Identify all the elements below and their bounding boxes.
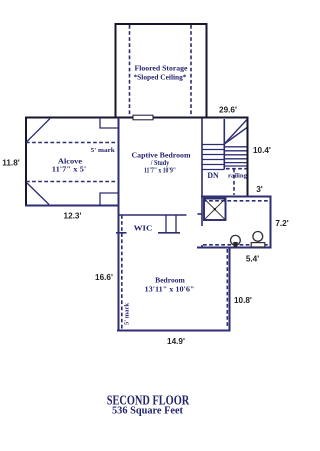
stair treads right flight xyxy=(224,147,247,166)
toilet xyxy=(231,235,241,247)
svg-text:12.3': 12.3' xyxy=(64,212,82,221)
WIC bottom wall left segment xyxy=(116,232,127,234)
svg-text:WIC: WIC xyxy=(134,224,153,232)
svg-text:5' mark: 5' mark xyxy=(91,147,116,154)
right exterior wall xyxy=(247,117,249,196)
svg-text:DN: DN xyxy=(207,171,219,180)
bedroom 5ft dashed line (left) xyxy=(121,215,123,330)
svg-text:16.6': 16.6' xyxy=(95,273,113,282)
alcove slope diagonal top-left xyxy=(27,119,50,142)
svg-text:11.8': 11.8' xyxy=(2,159,19,168)
svg-text:536 Square Feet: 536 Square Feet xyxy=(112,404,183,416)
svg-text:railing: railing xyxy=(228,172,248,179)
svg-text:10.8': 10.8' xyxy=(234,296,252,305)
svg-text:Bedroom: Bedroom xyxy=(155,278,185,285)
storage sloped-ceiling dashed line left xyxy=(129,25,131,117)
WIC top wall xyxy=(119,214,187,216)
svg-text:11'7" x 10'9": 11'7" x 10'9" xyxy=(144,168,176,175)
bathroom sloped dashed top xyxy=(203,200,268,202)
svg-text:14.9': 14.9' xyxy=(167,337,185,346)
captive bedroom label xyxy=(132,153,191,175)
svg-text:5' mark: 5' mark xyxy=(124,302,131,325)
bathroom left wall door cap xyxy=(201,245,203,248)
WIC door jamb right xyxy=(175,215,177,233)
svg-text:29.6': 29.6' xyxy=(219,106,237,115)
storage room walls xyxy=(116,24,207,118)
svg-text:5.4': 5.4' xyxy=(246,255,259,264)
stair treads left flight xyxy=(202,145,224,170)
bathroom bottom wall xyxy=(197,247,272,249)
railing dashed vertical xyxy=(233,169,235,195)
sink xyxy=(251,232,265,248)
bedroom right wall xyxy=(229,247,231,332)
stair winder diagonal to corner xyxy=(224,120,247,145)
svg-text:/ Study: / Study xyxy=(150,160,170,167)
alcove 5ft dashed line lower xyxy=(26,181,118,183)
storage sloped-ceiling dashed line right xyxy=(190,25,192,117)
svg-text:11'7" x 5': 11'7" x 5' xyxy=(52,167,86,174)
shower xyxy=(204,199,226,221)
wall stub left of bathroom xyxy=(198,213,203,215)
bathroom sloped dashed bottom xyxy=(203,244,268,246)
svg-text:Captive Bedroom: Captive Bedroom xyxy=(132,153,191,160)
WIC bottom wall right segment xyxy=(158,232,180,234)
stair winder diagonal to right wall xyxy=(224,128,247,145)
bedroom 5ft dashed line (right) xyxy=(226,249,228,327)
bathroom top wall xyxy=(201,196,272,198)
bathroom right wall xyxy=(270,196,272,249)
svg-text:7.2': 7.2' xyxy=(275,219,288,228)
svg-text:Floored Storage: Floored Storage xyxy=(135,65,188,72)
svg-text:3': 3' xyxy=(256,185,263,194)
alcove bottom wall xyxy=(25,205,120,207)
railing dashed horizontal xyxy=(226,168,248,170)
alcove label xyxy=(52,159,86,174)
alcove slope diagonal bottom-left xyxy=(27,183,49,205)
stair center stringer xyxy=(223,119,225,170)
main top exterior wall xyxy=(25,117,249,119)
WIC door jamb left xyxy=(165,215,167,233)
stair left wall / hallway-bath left wall xyxy=(201,119,203,227)
storage label xyxy=(134,65,188,81)
window on top wall xyxy=(133,115,153,120)
svg-text:13'11" x 10'6": 13'11" x 10'6" xyxy=(145,286,195,293)
alcove left exterior wall xyxy=(25,117,27,207)
bedroom bottom wall xyxy=(117,330,231,332)
alcove bottom-right knee box xyxy=(100,193,119,206)
svg-text:*Sloped Ceiling*: *Sloped Ceiling* xyxy=(134,74,188,81)
svg-text:10.4': 10.4' xyxy=(253,146,271,155)
alcove top-right knee box xyxy=(100,118,119,129)
svg-text:Alcove: Alcove xyxy=(58,159,82,166)
bedroom label xyxy=(145,278,195,294)
wall between alcove and bedroom areas xyxy=(118,118,120,332)
alcove 5ft dashed line upper xyxy=(26,142,118,144)
